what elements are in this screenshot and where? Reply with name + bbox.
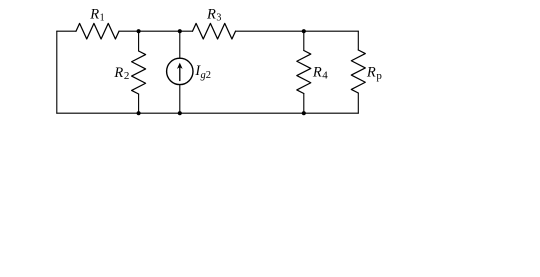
wire top-right segment: [236, 30, 359, 32]
node dot top R2: [137, 29, 141, 33]
wire bottom rail: [57, 112, 359, 114]
svg-text:R2: R2: [113, 65, 129, 82]
resistor R1: [76, 23, 119, 39]
current source Ig2 circle: [167, 58, 193, 84]
node dot bottom R4: [302, 111, 306, 115]
wire Rp branch bottom: [357, 93, 359, 113]
resistor R3: [193, 23, 236, 39]
node dot bottom R2: [137, 111, 141, 115]
node dot top R4: [302, 29, 306, 33]
svg-text:R4: R4: [312, 65, 328, 82]
wire top-left segment: [57, 30, 76, 32]
node dot top Ig2: [178, 29, 182, 33]
wire R4 branch bottom: [303, 94, 305, 114]
wire Ig2 branch bottom: [179, 85, 181, 114]
wire top-middle segment: [119, 30, 193, 32]
svg-text:R3: R3: [206, 7, 221, 24]
resistor R2: [132, 51, 146, 94]
current source Ig2 arrow: [177, 63, 183, 82]
wire Rp branch top: [357, 31, 359, 50]
wire left rail: [56, 31, 58, 113]
svg-text:R1: R1: [89, 7, 104, 24]
wire R2 branch bottom: [138, 94, 140, 113]
wire R2 branch top: [138, 31, 140, 51]
resistor R4: [297, 51, 311, 94]
wire R4 branch top: [303, 31, 305, 50]
resistor Rp: [351, 50, 365, 93]
wire Ig2 branch top: [179, 31, 181, 58]
svg-text:Ig2: Ig2: [194, 63, 211, 81]
node dot bottom Ig2: [178, 111, 182, 115]
svg-text:Rp: Rp: [366, 65, 382, 83]
